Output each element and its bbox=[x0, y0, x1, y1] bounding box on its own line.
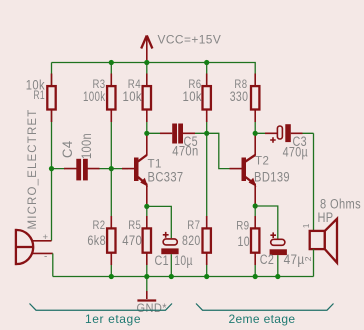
wire emitter node to C2 bbox=[255, 206, 278, 239]
node junction R8/C3/T2-collector bbox=[253, 131, 258, 136]
wire emitter node to C1 bbox=[147, 206, 172, 238]
svg-text:6k8: 6k8 bbox=[87, 233, 106, 248]
node junction R6/C5/R7/T2-base-route bbox=[204, 131, 209, 136]
svg-text:1er etage: 1er etage bbox=[85, 312, 141, 326]
svg-text:10k: 10k bbox=[183, 89, 203, 104]
svg-text:C4: C4 bbox=[60, 140, 75, 158]
resistor R5 bbox=[143, 206, 151, 276]
node junction R3/R2/C4/T1-base bbox=[109, 166, 114, 171]
node junction bus/C2 bbox=[275, 274, 280, 279]
svg-text:10µ: 10µ bbox=[174, 253, 193, 268]
svg-text:47µ: 47µ bbox=[284, 252, 305, 267]
svg-text:R2: R2 bbox=[93, 218, 106, 232]
svg-text:2eme etage: 2eme etage bbox=[229, 312, 296, 326]
svg-text:10: 10 bbox=[238, 234, 251, 249]
microphone MIC (electret) bbox=[16, 229, 53, 265]
resistor R3 bbox=[107, 63, 115, 169]
vcc symbol P+ bbox=[141, 36, 152, 63]
node junction left column / C4 bbox=[49, 166, 54, 171]
svg-text:330: 330 bbox=[230, 89, 249, 104]
brace 2eme etage bbox=[196, 304, 334, 311]
transistor T2 bbox=[230, 133, 257, 206]
resistor R9 bbox=[251, 206, 259, 277]
svg-text:C2: C2 bbox=[260, 252, 275, 267]
node junction bus/R5/GND bbox=[144, 274, 149, 279]
node junction bus/R7 bbox=[204, 274, 209, 279]
svg-text:T2: T2 bbox=[255, 156, 269, 168]
svg-text:BD139: BD139 bbox=[254, 169, 290, 184]
speaker HP bbox=[310, 219, 337, 277]
svg-text:100k: 100k bbox=[83, 89, 106, 104]
svg-text:470: 470 bbox=[122, 233, 142, 248]
wire mic minus to ground bus bbox=[52, 253, 54, 276]
node junction bus/VCC/R4 bbox=[144, 60, 149, 65]
svg-text:VCC=+15V: VCC=+15V bbox=[158, 33, 222, 47]
svg-text:10k: 10k bbox=[123, 89, 143, 104]
capacitor C2 (polarized) bbox=[270, 232, 287, 276]
svg-text:R7: R7 bbox=[187, 218, 200, 232]
node junction bus/C1 bbox=[169, 274, 174, 279]
wire C3 to speaker top bbox=[313, 133, 315, 224]
svg-text:+: + bbox=[43, 232, 49, 243]
svg-text:R1: R1 bbox=[33, 88, 45, 102]
resistor R7 bbox=[203, 133, 211, 276]
svg-text:1: 1 bbox=[301, 223, 311, 228]
transistor T1 bbox=[122, 133, 148, 206]
svg-text:470n: 470n bbox=[172, 144, 199, 159]
node junction T2 emitter / R9 / C2 bbox=[253, 203, 258, 208]
svg-text:470µ: 470µ bbox=[283, 145, 309, 160]
node junction bus/R6 bbox=[204, 60, 209, 65]
node junction bus/R3 bbox=[109, 60, 114, 65]
node junction bus/R9 bbox=[253, 274, 258, 279]
wire left column (mic+ / R1 / C4 node) bbox=[51, 63, 53, 241]
resistor R4 bbox=[143, 63, 151, 134]
resistor R8 bbox=[251, 74, 259, 134]
capacitor C5 bbox=[147, 124, 207, 144]
resistor R1 bbox=[47, 74, 55, 123]
svg-text:HP: HP bbox=[318, 210, 334, 225]
svg-text:MICRO_ELECTRET: MICRO_ELECTRET bbox=[27, 109, 39, 230]
wire T2 base route bbox=[207, 133, 230, 168]
svg-text:-: - bbox=[44, 252, 48, 263]
svg-text:R9: R9 bbox=[236, 218, 249, 232]
svg-text:BC337: BC337 bbox=[148, 169, 184, 184]
svg-text:8 Ohms: 8 Ohms bbox=[320, 196, 361, 211]
wire T1 base bbox=[111, 168, 128, 170]
brace 1er etage bbox=[30, 304, 173, 311]
wire top supply bus bbox=[52, 63, 256, 75]
capacitor C4 bbox=[52, 159, 112, 181]
svg-text:100n: 100n bbox=[79, 133, 94, 159]
node junction R4/C5/T1-collector bbox=[144, 131, 149, 136]
svg-text:R5: R5 bbox=[128, 218, 141, 232]
svg-text:820: 820 bbox=[182, 233, 201, 248]
node junction T1 emitter / R5 / C1 bbox=[144, 204, 149, 209]
capacitor C3 (polarized) bbox=[255, 124, 313, 143]
node junction bus/R2 bbox=[109, 274, 114, 279]
ground GND* bbox=[137, 277, 156, 301]
svg-text:C1: C1 bbox=[155, 253, 170, 268]
svg-text:2: 2 bbox=[303, 256, 313, 261]
wire bottom ground bus bbox=[53, 276, 314, 278]
resistor R2 bbox=[107, 169, 115, 277]
capacitor C1 (polarized) bbox=[161, 232, 178, 277]
resistor R6 bbox=[203, 63, 211, 134]
